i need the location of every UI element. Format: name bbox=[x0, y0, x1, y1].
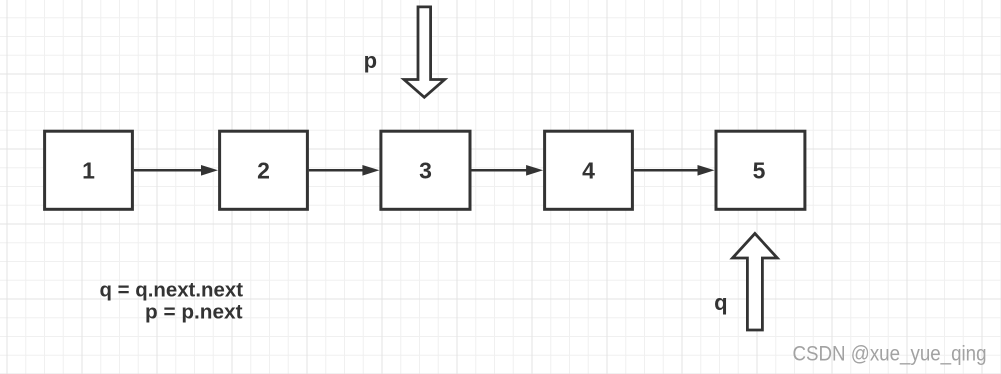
node box 5 bbox=[716, 131, 805, 209]
svg-text:q: q bbox=[714, 290, 727, 315]
svg-text:5: 5 bbox=[753, 158, 766, 184]
pointer p block arrow (down) bbox=[404, 7, 445, 97]
wire arrow 4-5 bbox=[634, 165, 715, 176]
svg-text:p: p bbox=[364, 48, 377, 73]
svg-text:p = p.next: p = p.next bbox=[145, 302, 243, 324]
wire arrow 2-3 bbox=[309, 165, 380, 176]
pointer q block arrow (up) bbox=[733, 234, 778, 331]
wire arrow 1-2 bbox=[134, 165, 218, 176]
svg-text:q = q.next.next: q = q.next.next bbox=[100, 280, 244, 302]
svg-text:1: 1 bbox=[82, 158, 95, 184]
svg-text:3: 3 bbox=[419, 158, 432, 184]
node box 1 bbox=[45, 131, 133, 209]
node box 2 bbox=[220, 131, 308, 209]
svg-text:4: 4 bbox=[582, 158, 595, 184]
node box 3 bbox=[381, 131, 470, 209]
node box 4 bbox=[545, 131, 633, 209]
svg-text:2: 2 bbox=[257, 158, 270, 184]
svg-text:CSDN @xue_yue_qing: CSDN @xue_yue_qing bbox=[793, 343, 987, 366]
wire arrow 3-4 bbox=[472, 165, 544, 176]
